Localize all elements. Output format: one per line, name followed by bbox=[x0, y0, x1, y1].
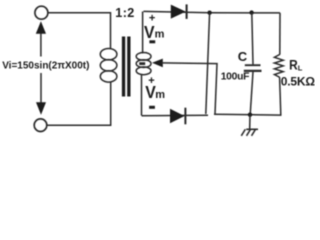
label +Vm- lower bbox=[145, 75, 165, 108]
terminal top input bbox=[35, 6, 48, 19]
svg-text:L: L bbox=[298, 64, 303, 73]
wire D2 bottom bbox=[142, 114, 209, 117]
wire bottom rail bbox=[214, 113, 282, 116]
node junction top D1D2 bbox=[207, 11, 211, 15]
label RL bbox=[289, 57, 303, 73]
svg-text:V: V bbox=[144, 22, 155, 42]
transformer primary winding bbox=[100, 49, 117, 83]
transformer core bbox=[122, 37, 131, 97]
center tap arrow and wire bbox=[139, 59, 217, 114]
terminal bottom input bbox=[34, 119, 47, 132]
node junction top capacitor bbox=[249, 10, 253, 14]
diode D1 bbox=[171, 4, 187, 19]
label +Vm- upper bbox=[144, 13, 165, 43]
capacitor C bbox=[244, 13, 262, 115]
wire top rail bbox=[143, 11, 280, 13]
svg-text:C: C bbox=[238, 49, 248, 64]
wire D1D2 connector bbox=[206, 13, 210, 114]
resistor RL bbox=[274, 13, 283, 115]
wire top-left bbox=[48, 13, 110, 49]
svg-text:m: m bbox=[155, 28, 165, 40]
node junction ground bbox=[248, 113, 252, 117]
svg-text:1:2: 1:2 bbox=[115, 6, 134, 20]
svg-text:Vi=150sin(2πX00t): Vi=150sin(2πX00t) bbox=[2, 61, 89, 72]
svg-text:m: m bbox=[155, 89, 165, 101]
voltage arrow up bbox=[36, 21, 46, 56]
svg-text:0.5KΩ: 0.5KΩ bbox=[281, 75, 315, 89]
voltage arrow down bbox=[36, 73, 46, 115]
transformer secondary winding bbox=[136, 12, 151, 116]
ground bbox=[241, 115, 258, 136]
wire bottom-left bbox=[47, 82, 111, 125]
svg-text:100uF: 100uF bbox=[221, 71, 250, 82]
diode D2 bbox=[170, 108, 185, 125]
